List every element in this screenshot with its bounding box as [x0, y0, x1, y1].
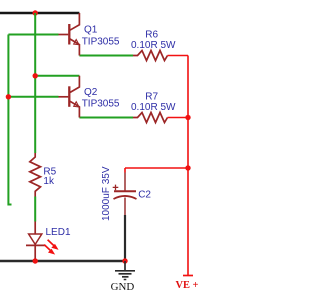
svg-text:1000uF 35V: 1000uF 35V [101, 166, 112, 221]
node junction LED ground [33, 258, 38, 263]
svg-text:R7: R7 [145, 91, 158, 102]
resistor R6 [133, 51, 168, 61]
svg-text:Q1: Q1 [84, 25, 98, 36]
wire green base Q2 horizontal [8, 96, 58, 98]
wire red C2 top lead [124, 168, 126, 173]
svg-text:R6: R6 [145, 30, 158, 41]
wire red C2 branch horizontal [125, 167, 188, 169]
wire green vertical main (x=35.2 from top wire to R5) [34, 13, 36, 153]
svg-text:TIP3055: TIP3055 [82, 99, 120, 110]
resistor R5 [30, 153, 41, 197]
wire green Q2 emitter to R7 [79, 117, 133, 119]
wire red R6 to bus [168, 55, 189, 57]
node junction base Q2 wire [6, 94, 11, 99]
diode LED1 [34, 222, 36, 235]
transistor Q1 [59, 13, 80, 56]
transistor Q2 [59, 76, 80, 118]
wire black C2 to ground [124, 215, 126, 261]
wire green base Q1 horizontal [8, 34, 58, 36]
svg-text:0.10R 5W: 0.10R 5W [131, 40, 176, 51]
svg-text:1k: 1k [43, 176, 55, 187]
node junction collector Q2 wire [33, 73, 38, 78]
node junction C2 branch bus [185, 165, 190, 170]
wire red R7 to bus [168, 117, 189, 119]
wire green R5 to LED [34, 197, 36, 222]
node junction on top wire [33, 10, 38, 15]
ground symbol [115, 261, 135, 280]
svg-text:Q2: Q2 [84, 87, 98, 98]
svg-text:C2: C2 [138, 190, 151, 201]
resistor R7 [133, 113, 168, 123]
terminal VE+ [183, 275, 193, 277]
svg-text:0.10R 5W: 0.10R 5W [131, 102, 176, 113]
wire green Q1 emitter to R6 [79, 55, 133, 57]
node junction C2 ground [122, 258, 127, 263]
wire black bottom ground horizontal [0, 260, 125, 263]
svg-text:TIP3055: TIP3055 [82, 36, 120, 47]
node junction R7 bus [185, 115, 190, 120]
svg-text:LED1: LED1 [46, 227, 71, 238]
capacitor C2 [124, 173, 126, 192]
wire green left vertical with bottom stub [8, 35, 11, 205]
wire green Q2 collector horizontal [35, 75, 79, 77]
LED light arrows [44, 240, 58, 254]
wire top ground/black horizontal [0, 12, 79, 14]
svg-text:VE +: VE + [176, 280, 199, 291]
svg-text:GND: GND [111, 281, 135, 293]
wire red VE+ bus vertical [187, 56, 189, 276]
